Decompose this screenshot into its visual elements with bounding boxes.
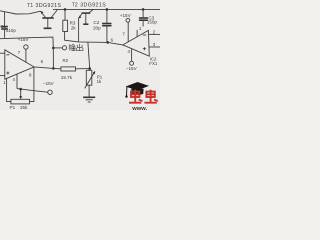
svg-text:T1: T1 <box>27 3 33 9</box>
svg-text:+15V: +15V <box>120 13 132 18</box>
ground (T1 base) <box>44 27 52 29</box>
wire: junction to output terminal <box>53 47 62 49</box>
logo: red 虫 character 2 <box>144 90 157 103</box>
capacitor C3 <box>139 9 148 26</box>
transistor T1 <box>40 9 57 18</box>
node: rail/C2 junction <box>106 8 109 11</box>
node: P1 wiper junction <box>19 88 22 91</box>
T2 base lead <box>85 14 87 24</box>
wire: C1 bottom to output node (feedback) <box>0 37 53 48</box>
potentiometer P2 <box>85 69 96 89</box>
ground (P2) <box>83 97 95 102</box>
svg-text:150p: 150p <box>147 19 158 24</box>
svg-text:−15V: −15V <box>43 81 54 86</box>
svg-text:25k: 25k <box>20 105 28 110</box>
logo: graduation cap <box>125 82 149 98</box>
wire: junction down to IC1 output node <box>52 48 54 69</box>
svg-text:www.: www. <box>131 106 147 110</box>
+15V terminal (left, IC1 pin7) <box>18 37 30 62</box>
potentiometer P1 <box>11 99 30 104</box>
+15V rail <box>53 8 160 10</box>
pin 2 input line (IC1) <box>0 52 5 54</box>
svg-text:P1: P1 <box>10 105 16 110</box>
pin 3 input line (IC2) <box>149 46 160 48</box>
node: output tap junction <box>52 47 55 50</box>
capacitor C1 <box>1 12 8 38</box>
svg-text:−15V: −15V <box>126 66 138 71</box>
P1 wiper arrow <box>19 89 22 99</box>
output terminal circle <box>62 46 66 50</box>
T1 base lead <box>47 19 49 28</box>
transistor T2 <box>78 9 93 18</box>
wire: node to IC2 output apex <box>108 42 123 45</box>
capacitor C2 <box>102 9 111 42</box>
node: rail/C3 junction <box>142 8 145 11</box>
ground (T2 base) <box>83 23 88 25</box>
pin 4 lead (IC2) <box>131 49 133 62</box>
node: IC1 output / R2 junction <box>52 67 55 70</box>
svg-text:R2: R2 <box>63 58 69 63</box>
T2 emitter wire down <box>78 18 80 42</box>
node: R2/P2 junction <box>88 67 91 70</box>
node wire: R3 bottom / T2 emitter / P2 / C2 / IC2 output <box>65 32 108 43</box>
pin 1 stub (IC2) <box>136 30 138 37</box>
pin 2 input line (IC2) <box>149 33 161 35</box>
-15V terminal (IC1) <box>43 81 54 95</box>
wire: T1 emitter to left edge <box>0 11 41 14</box>
svg-text:15.7k: 15.7k <box>61 75 73 80</box>
+15V terminal (right, IC2 pin7) <box>120 13 132 42</box>
svg-text:20p: 20p <box>93 25 101 30</box>
logo: red 虫 character 1 <box>129 90 142 103</box>
svg-text:+15V: +15V <box>18 37 30 42</box>
potentiometer P2 top lead <box>88 42 90 68</box>
svg-text:3DG921S: 3DG921S <box>36 3 62 9</box>
IC1 output wire <box>34 67 53 69</box>
pin 1 stub (IC1) to P1 <box>7 78 11 101</box>
label 输出 (output) <box>69 44 83 51</box>
svg-text:510p: 510p <box>6 28 16 33</box>
svg-text:3DG921S: 3DG921S <box>80 2 106 8</box>
resistor R2 <box>53 67 89 71</box>
node: C2/output junction <box>107 41 110 44</box>
wire: pin4 to -15V terminal <box>17 89 48 93</box>
resistor R3 <box>63 9 68 31</box>
pin 3 input line (IC1) <box>0 75 5 77</box>
pin 8 stub (IC1) to P1 <box>30 67 34 101</box>
P2 bottom lead <box>88 85 90 97</box>
op-amp IC1 (points right) <box>5 50 34 79</box>
op-amp IC2 (points left) <box>123 30 150 56</box>
svg-text:2k: 2k <box>71 25 77 30</box>
svg-text:FX1: FX1 <box>149 61 158 66</box>
svg-text:1k: 1k <box>97 79 102 84</box>
-15V terminal (IC2) <box>126 61 138 71</box>
pin 4 lead (IC1) <box>16 74 18 89</box>
node: rail/R3 junction <box>64 8 67 11</box>
svg-text:T2: T2 <box>72 2 78 8</box>
